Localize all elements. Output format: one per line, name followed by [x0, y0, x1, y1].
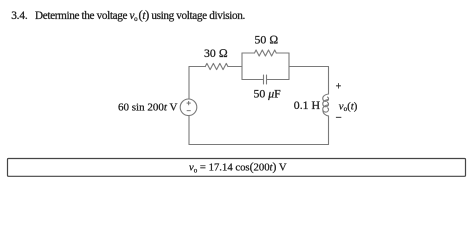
wire: top branch right of R2	[276, 52, 289, 54]
svg-text:60 sin 200t V: 60 sin 200t V	[118, 102, 177, 114]
svg-text:0.1 H: 0.1 H	[294, 98, 321, 112]
wire: between R1 and parallel box	[228, 66, 242, 68]
voltage source plus sign	[187, 101, 191, 111]
svg-text:3.4.: 3.4.	[11, 10, 28, 22]
wire: box to top-right corner	[289, 66, 329, 68]
svg-text:50 μF: 50 μF	[254, 87, 282, 101]
wire: bottom horizontal	[189, 144, 329, 146]
svg-text:−: −	[336, 112, 342, 124]
node: parallel box left edge	[241, 53, 243, 80]
wire: left vertical above source	[188, 67, 190, 100]
inductor L1 bottom hook	[323, 111, 329, 116]
svg-text:50 Ω: 50 Ω	[255, 33, 279, 47]
svg-text:+: +	[336, 82, 342, 93]
resistor R1 30ohm zigzag	[205, 63, 228, 69]
wire: top branch left of R2	[242, 52, 255, 54]
voltage source VS circle	[180, 99, 197, 116]
resistor R2 50ohm zigzag	[255, 50, 277, 56]
svg-text:30 Ω: 30 Ω	[204, 46, 228, 60]
wire: top-left horizontal segment	[189, 66, 206, 68]
answer box	[8, 159, 466, 177]
svg-text:vo = 17.14 cos(200t) V: vo = 17.14 cos(200t) V	[189, 161, 287, 175]
inductor L1 0.1H coil	[323, 94, 329, 101]
wire: right vertical below inductor	[328, 116, 330, 145]
node: parallel box right edge	[288, 53, 290, 80]
capacitor C1 50uF plates	[264, 75, 267, 84]
svg-text:Determine the voltage vo(t) us: Determine the voltage vo(t) using voltag…	[35, 8, 245, 23]
wire: right vertical above inductor	[328, 67, 330, 95]
wire: left vertical below source	[188, 116, 190, 145]
wire: bottom branch right of C1	[267, 79, 290, 81]
voltage source minus sign	[187, 110, 191, 112]
wire: bottom branch left of C1	[242, 79, 264, 81]
